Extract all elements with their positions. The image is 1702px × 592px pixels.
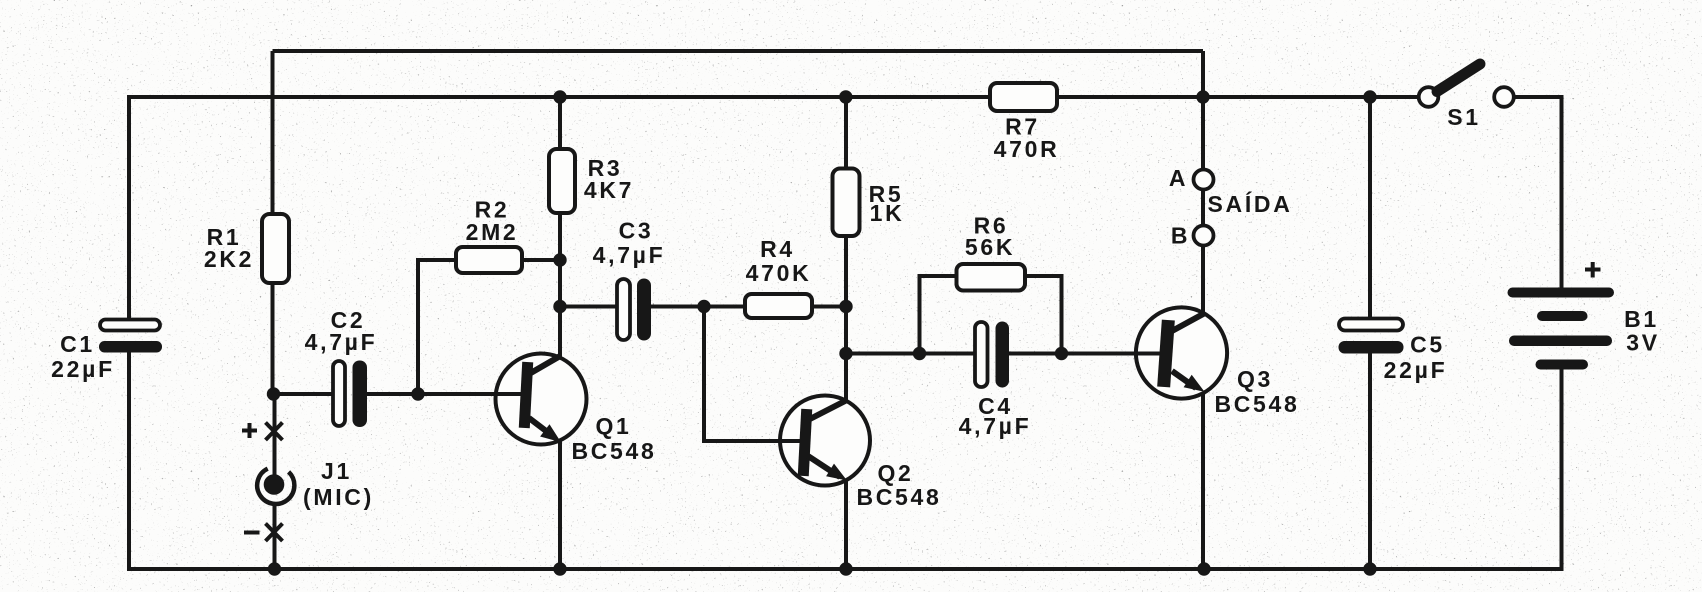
polarity plus J1 — [242, 423, 257, 438]
wire C5 vertical — [1368, 97, 1372, 569]
capacitor C5 bottom plate — [1339, 341, 1404, 354]
svg-text:B: B — [1171, 223, 1190, 249]
svg-text:Q2: Q2 — [877, 460, 913, 486]
battery B1 plate 1 — [1508, 288, 1615, 298]
svg-text:SAÍDA: SAÍDA — [1207, 190, 1292, 217]
capacitor C1 bottom plate — [99, 341, 162, 353]
svg-text:4,7µF: 4,7µF — [593, 242, 666, 268]
svg-text:C3: C3 — [619, 218, 654, 244]
capacitor C3 right plate — [637, 279, 651, 341]
node ground at C5 — [1363, 562, 1376, 575]
node on upper rail at R3 — [553, 90, 566, 103]
svg-text:3V: 3V — [1626, 330, 1660, 356]
wire C4 row — [846, 352, 1160, 356]
wire J1 vertical — [273, 394, 277, 569]
battery polarity plus — [1585, 262, 1601, 278]
svg-text:56K: 56K — [965, 234, 1015, 260]
transistor Q3 — [1136, 307, 1227, 398]
svg-text:BC548: BC548 — [856, 484, 941, 510]
node ground at Q1 — [553, 562, 566, 575]
svg-text:BC548: BC548 — [571, 438, 656, 464]
wire Q2 base branch — [704, 307, 800, 442]
svg-text:(MIC): (MIC) — [303, 484, 374, 510]
svg-text:22µF: 22µF — [51, 356, 115, 382]
svg-text:470K: 470K — [746, 260, 812, 286]
wire S1 to battery — [1514, 97, 1562, 571]
wire left vertical through C1 — [127, 95, 131, 571]
battery B1 plate 2 — [1537, 311, 1588, 321]
capacitor C5 top plate — [1339, 319, 1403, 331]
wire R6 loop — [920, 276, 1062, 354]
svg-text:2K2: 2K2 — [204, 246, 254, 272]
resistor R2 — [456, 247, 522, 273]
node ground at J1 — [268, 562, 281, 575]
svg-text:1K: 1K — [870, 200, 905, 226]
wire bottom ground rail — [127, 567, 1564, 571]
wire upper rail — [129, 95, 1419, 99]
battery B1 plate 3 — [1509, 336, 1612, 347]
svg-text:C1: C1 — [60, 331, 95, 357]
wire R5 vertical — [844, 97, 848, 569]
capacitor C3 left plate — [617, 279, 630, 340]
break symbol x top — [266, 423, 283, 441]
node ground at Q2 — [839, 562, 852, 575]
svg-text:Q1: Q1 — [595, 413, 631, 439]
wire R2 branch — [418, 260, 560, 394]
svg-text:470R: 470R — [994, 136, 1060, 162]
switch S1 pole contact — [1419, 87, 1439, 107]
node R6 loop right — [1055, 347, 1068, 360]
svg-text:2M2: 2M2 — [466, 219, 519, 245]
node on upper rail at C5 — [1363, 90, 1376, 103]
transistor Q1 — [495, 354, 587, 445]
svg-text:S1: S1 — [1447, 104, 1481, 130]
resistor R6 — [957, 264, 1026, 291]
svg-text:Q3: Q3 — [1237, 366, 1273, 392]
battery B1 plate 4 — [1536, 360, 1589, 370]
svg-text:B1: B1 — [1624, 306, 1659, 332]
svg-text:J1: J1 — [321, 458, 352, 484]
switch S1 lever — [1437, 64, 1480, 92]
node R4 right — [839, 300, 852, 313]
mic jack J1 ring — [257, 469, 294, 504]
node Q1 base row R2 — [411, 387, 424, 400]
node Q1 base row left — [267, 387, 280, 400]
node on upper rail at R5 — [839, 90, 852, 103]
wire output vertical — [1201, 51, 1205, 569]
svg-text:4K7: 4K7 — [584, 177, 634, 203]
resistor R1 — [262, 214, 289, 283]
capacitor C1 top plate — [100, 320, 160, 331]
node R3 bottom C3 — [553, 300, 566, 313]
transistor Q2 — [780, 396, 870, 486]
polarity minus J1 — [244, 531, 260, 535]
capacitor C4 right plate — [996, 322, 1010, 388]
terminal B — [1194, 226, 1214, 246]
svg-text:BC548: BC548 — [1214, 391, 1299, 417]
switch S1 throw contact — [1494, 87, 1514, 107]
node R2 right — [553, 253, 566, 266]
resistor R7 — [990, 83, 1057, 111]
node R6 loop left — [913, 347, 926, 360]
wire R1 vertical — [271, 51, 275, 394]
capacitor C2 left plate — [333, 361, 345, 426]
svg-text:R4: R4 — [760, 236, 795, 262]
wire top supply — [273, 49, 1204, 53]
node Q2 collector — [839, 347, 852, 360]
capacitor C2 right plate — [353, 361, 368, 428]
break symbol x bottom — [266, 524, 283, 542]
node ground at Q3 — [1197, 562, 1210, 575]
svg-text:4,7µF: 4,7µF — [305, 329, 378, 355]
resistor R3 — [549, 149, 575, 213]
svg-text:22µF: 22µF — [1384, 357, 1448, 383]
wire Q1 base row — [274, 392, 528, 396]
wire C3 row — [560, 305, 846, 309]
terminal A — [1194, 170, 1214, 190]
wire R3 vertical — [558, 97, 562, 569]
capacitor C4 left plate — [975, 322, 988, 387]
node on upper rail at output — [1196, 90, 1209, 103]
resistor R5 — [833, 169, 860, 237]
svg-text:4,7µF: 4,7µF — [959, 413, 1032, 439]
svg-text:A: A — [1169, 165, 1188, 191]
node C3 row Q2 branch — [697, 300, 710, 313]
svg-text:C5: C5 — [1410, 332, 1445, 358]
mic jack J1 dot — [264, 474, 285, 495]
resistor R4 — [745, 294, 812, 318]
